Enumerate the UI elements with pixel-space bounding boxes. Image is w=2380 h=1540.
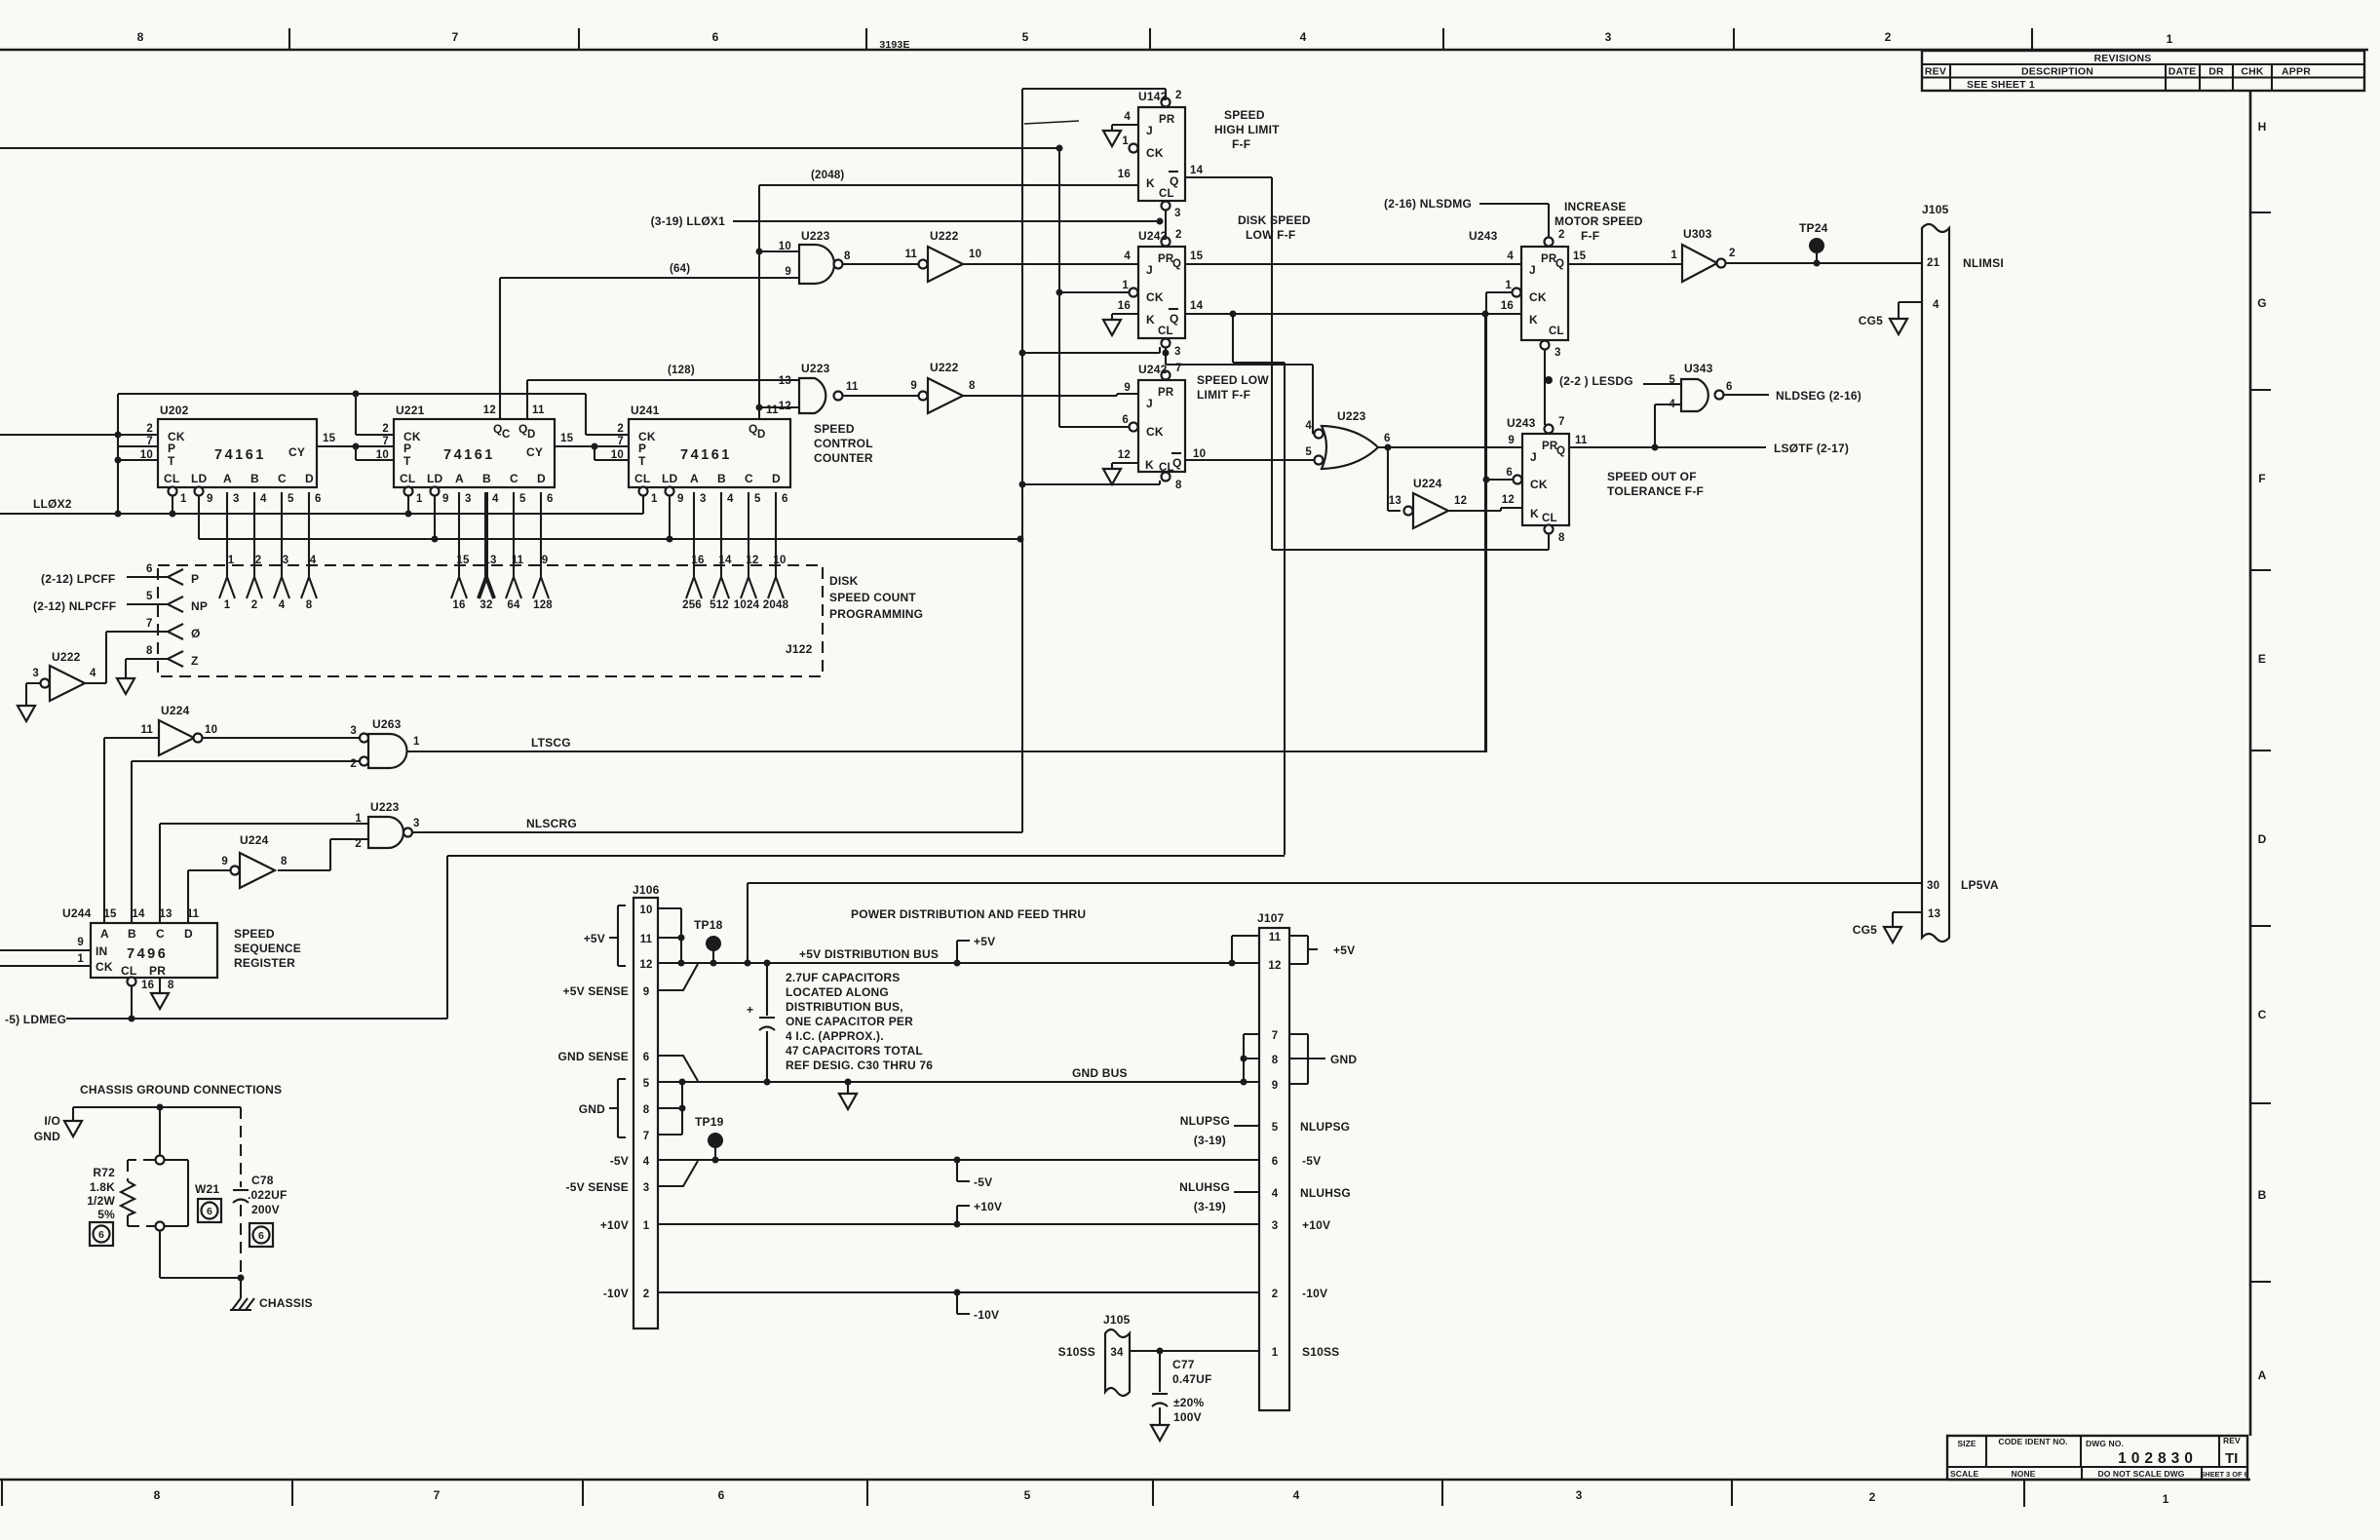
wire +5V distribution bus — [658, 947, 1259, 967]
svg-text:IN: IN — [96, 944, 107, 958]
svg-text:3: 3 — [1576, 1488, 1583, 1502]
svg-text:CODE IDENT NO.: CODE IDENT NO. — [1998, 1437, 2067, 1446]
inverter U222a — [904, 229, 981, 282]
ground CG5 lower — [1853, 923, 1901, 943]
svg-text:T: T — [403, 454, 411, 468]
svg-text:Q: Q — [1172, 456, 1182, 470]
svg-text:2: 2 — [146, 423, 153, 435]
svg-text:J: J — [1530, 450, 1537, 464]
svg-text:U243: U243 — [1507, 416, 1536, 430]
svg-text:POWER DISTRIBUTION AND FEED TH: POWER DISTRIBUTION AND FEED THRU — [851, 907, 1086, 921]
svg-text:W21: W21 — [195, 1182, 219, 1196]
ground I/O GND — [64, 1121, 82, 1136]
svg-text:DISTRIBUTION BUS,: DISTRIBUTION BUS, — [786, 1000, 903, 1014]
svg-text:Q: Q — [1170, 174, 1179, 188]
connector J122 dashed box — [158, 565, 823, 676]
svg-text:8: 8 — [137, 30, 144, 44]
svg-text:64: 64 — [507, 599, 520, 611]
svg-text:2: 2 — [1175, 229, 1182, 241]
svg-text:1: 1 — [1122, 280, 1129, 291]
testpoint TP24 — [1799, 221, 1828, 263]
svg-text:F: F — [2258, 472, 2266, 485]
svg-text:8: 8 — [306, 599, 313, 611]
wire J106 pins 10 11 jog — [658, 908, 685, 967]
label I/O GND — [34, 1114, 60, 1143]
svg-text:D: D — [305, 472, 314, 485]
capacitor C78 — [233, 1107, 288, 1278]
svg-text:2: 2 — [1558, 229, 1565, 241]
svg-text:T: T — [638, 454, 646, 468]
svg-text:INCREASE: INCREASE — [1564, 200, 1627, 213]
wire U202 CK input — [0, 434, 158, 436]
svg-text:7: 7 — [434, 1488, 441, 1502]
svg-text:S10SS: S10SS — [1302, 1345, 1339, 1359]
wire J105 pin13 to CG5 — [1893, 912, 1922, 927]
ground at U222c input — [18, 706, 35, 721]
svg-text:CHASSIS GROUND CONNECTIONS: CHASSIS GROUND CONNECTIONS — [80, 1083, 282, 1097]
note square 6 left — [90, 1222, 113, 1246]
svg-text:5%: 5% — [97, 1208, 115, 1221]
svg-text:6: 6 — [207, 1206, 212, 1217]
svg-text:(128): (128) — [668, 365, 695, 376]
svg-text:+10V: +10V — [1302, 1218, 1330, 1232]
svg-text:D: D — [757, 429, 766, 441]
svg-text:9: 9 — [77, 937, 84, 948]
svg-text:100V: 100V — [1173, 1410, 1202, 1424]
svg-text:ONE CAPACITOR PER: ONE CAPACITOR PER — [786, 1015, 913, 1028]
wire NLPCFF to NP — [33, 591, 168, 613]
svg-text:I/O: I/O — [44, 1114, 60, 1128]
svg-text:U202: U202 — [160, 404, 189, 417]
svg-text:PR: PR — [1158, 387, 1174, 399]
svg-text:16: 16 — [1501, 300, 1514, 312]
wire U221 CY to U241 P/T — [555, 443, 629, 461]
svg-text:LOW F-F: LOW F-F — [1246, 228, 1295, 242]
svg-text:-5) LDMEG: -5) LDMEG — [5, 1013, 66, 1026]
svg-text:D: D — [184, 927, 193, 941]
svg-text:2: 2 — [1175, 90, 1182, 101]
label -10V stub — [957, 1292, 999, 1322]
svg-text:10: 10 — [376, 449, 389, 461]
svg-text:D: D — [527, 429, 536, 441]
title block — [1947, 1436, 2248, 1507]
svg-text:3: 3 — [643, 1182, 650, 1194]
svg-text:6: 6 — [782, 493, 788, 505]
svg-text:15: 15 — [323, 433, 336, 444]
wire U202 D pin — [301, 492, 317, 611]
svg-text:+: + — [747, 1003, 753, 1017]
svg-text:128: 128 — [533, 599, 553, 611]
wire U202 B pin — [247, 492, 262, 611]
wire U202 P T stubs — [118, 446, 158, 460]
svg-text:PROGRAMMING: PROGRAMMING — [829, 607, 923, 621]
wire U223c pin2 from U224b — [278, 839, 368, 870]
svg-text:C: C — [156, 927, 165, 941]
svg-text:C: C — [745, 472, 753, 485]
svg-text:R72: R72 — [93, 1166, 115, 1179]
svg-text:30: 30 — [1927, 880, 1939, 892]
flip-flop U242b — [1118, 363, 1206, 491]
wire J106 pins 8 7 jog — [658, 1082, 686, 1135]
svg-text:9: 9 — [1508, 435, 1515, 446]
svg-text:6: 6 — [1384, 433, 1391, 444]
svg-text:P: P — [403, 442, 411, 455]
note square 6 mid — [198, 1199, 221, 1222]
svg-text:21: 21 — [1927, 257, 1940, 269]
svg-text:4: 4 — [1507, 250, 1514, 262]
svg-text:K: K — [1146, 313, 1155, 327]
svg-text:4: 4 — [260, 493, 267, 505]
svg-text:REV: REV — [1925, 66, 1946, 78]
svg-text:13: 13 — [1389, 495, 1401, 507]
svg-text:B: B — [717, 472, 726, 485]
capacitor 2.7UF — [747, 963, 775, 1082]
svg-text:13: 13 — [159, 908, 172, 920]
wire OR out to U243b J — [1378, 444, 1521, 451]
wire U224c out to U243b K — [1448, 508, 1522, 511]
svg-text:15: 15 — [1190, 250, 1204, 262]
svg-text:J105: J105 — [1922, 203, 1949, 216]
svg-text:-5V SENSE: -5V SENSE — [566, 1180, 630, 1194]
svg-text:6: 6 — [1506, 467, 1513, 479]
svg-text:8: 8 — [281, 856, 288, 867]
svg-text:SPEED COUNT: SPEED COUNT — [829, 591, 916, 604]
svg-text:G: G — [2257, 296, 2267, 310]
svg-text:15: 15 — [560, 433, 574, 444]
bracket GND J106 — [579, 1079, 626, 1137]
svg-text:8: 8 — [1175, 480, 1182, 491]
label increase motor speed — [1555, 200, 1643, 243]
svg-text:DESCRIPTION: DESCRIPTION — [2021, 66, 2093, 78]
svg-text:4: 4 — [727, 493, 734, 505]
svg-text:12: 12 — [483, 404, 496, 416]
svg-text:MOTOR SPEED: MOTOR SPEED — [1555, 214, 1643, 228]
svg-text:7: 7 — [617, 436, 624, 447]
svg-text:C: C — [278, 472, 287, 485]
svg-text:J: J — [1146, 124, 1153, 137]
bracket +5V J106 — [584, 905, 626, 966]
label speed high limit — [1214, 108, 1280, 151]
svg-text:9: 9 — [910, 380, 917, 392]
svg-text:11: 11 — [187, 908, 200, 920]
svg-text:-5V: -5V — [1302, 1154, 1321, 1168]
svg-text:4: 4 — [1124, 111, 1131, 123]
svg-text:12: 12 — [639, 959, 652, 971]
wire U224a out to U263 — [202, 737, 360, 739]
wire NLSDMG to U243a PR — [1384, 197, 1549, 237]
svg-text:11: 11 — [904, 249, 917, 260]
svg-text:LOCATED ALONG: LOCATED ALONG — [786, 985, 889, 999]
svg-text:3: 3 — [413, 818, 420, 829]
wire LTSCG — [406, 314, 1485, 751]
svg-text:1024: 1024 — [734, 599, 760, 611]
svg-text:U222: U222 — [930, 229, 959, 243]
svg-text:15: 15 — [103, 908, 117, 920]
svg-text:DR: DR — [2208, 66, 2224, 78]
svg-text:14: 14 — [132, 908, 145, 920]
svg-text:CONTROL: CONTROL — [814, 437, 873, 450]
svg-text:J122: J122 — [786, 642, 813, 656]
wire center node — [156, 1107, 165, 1231]
svg-text:10: 10 — [779, 241, 791, 252]
svg-text:1: 1 — [2163, 1492, 2169, 1506]
svg-text:4: 4 — [1933, 299, 1939, 311]
ground under Z — [117, 678, 134, 694]
svg-text:DISK SPEED: DISK SPEED — [1238, 213, 1311, 227]
label speed low limit — [1197, 373, 1269, 402]
wire NLSCRG branch to U242b CL — [1022, 481, 1160, 484]
svg-text:U224: U224 — [240, 833, 269, 847]
svg-text:6: 6 — [718, 1488, 725, 1502]
svg-text:6: 6 — [643, 1052, 650, 1063]
svg-text:8: 8 — [154, 1488, 161, 1502]
svg-text:3: 3 — [233, 493, 240, 505]
label -5V stub — [957, 1160, 992, 1189]
svg-text:CL: CL — [121, 964, 136, 978]
svg-text:7: 7 — [146, 436, 153, 447]
svg-text:±20%: ±20% — [1173, 1396, 1205, 1409]
svg-text:74161: 74161 — [443, 447, 495, 463]
svg-text:10: 10 — [611, 449, 624, 461]
or-gate U223d — [1305, 409, 1390, 469]
svg-text:5: 5 — [1669, 374, 1675, 386]
label disk speed low — [1238, 213, 1311, 242]
wire U222b out to U242b J — [963, 394, 1138, 396]
wire U221 D pin — [533, 492, 553, 611]
svg-text:12: 12 — [1118, 449, 1131, 461]
ground CG5 upper — [1859, 314, 1907, 334]
wire U222a out to U242a J — [963, 263, 1138, 265]
wire U223a out — [843, 263, 919, 265]
svg-text:D: D — [772, 472, 781, 485]
wire Z to ground — [126, 645, 168, 678]
capacitor C77 — [1152, 1351, 1212, 1425]
svg-text:J107: J107 — [1257, 911, 1285, 925]
wire U222c input — [26, 683, 40, 706]
svg-text:CK: CK — [1530, 478, 1548, 491]
svg-text:0.47UF: 0.47UF — [1172, 1372, 1212, 1386]
svg-text:16: 16 — [452, 599, 465, 611]
svg-text:12: 12 — [1502, 494, 1515, 506]
svg-text:8: 8 — [969, 380, 976, 392]
svg-text:SPEED: SPEED — [234, 927, 275, 941]
svg-text:GND: GND — [579, 1102, 605, 1116]
svg-text:8: 8 — [1558, 532, 1565, 544]
wire U223c pin1 from U244 C — [160, 824, 368, 923]
svg-text:-10V: -10V — [1302, 1287, 1327, 1300]
svg-text:11: 11 — [532, 404, 545, 416]
svg-text:SPEED OUT OF: SPEED OUT OF — [1607, 470, 1697, 483]
svg-text:11: 11 — [140, 724, 153, 736]
svg-text:5: 5 — [288, 493, 294, 505]
wire U244 CK input — [0, 965, 91, 967]
svg-text:3: 3 — [1272, 1220, 1279, 1232]
svg-text:15: 15 — [1573, 250, 1587, 262]
counter U202 — [140, 404, 336, 505]
svg-text:GND: GND — [34, 1130, 60, 1143]
svg-text:K: K — [1530, 507, 1539, 520]
svg-text:11: 11 — [640, 934, 653, 945]
svg-text:5: 5 — [146, 591, 153, 602]
svg-text:PR: PR — [1159, 114, 1175, 126]
wire U202 A pin — [219, 492, 235, 611]
svg-text:REF DESIG. C30 THRU 76: REF DESIG. C30 THRU 76 — [786, 1059, 933, 1072]
nand U223a — [779, 229, 851, 284]
svg-text:3: 3 — [1555, 347, 1561, 359]
svg-text:3: 3 — [1605, 30, 1612, 44]
svg-text:TI: TI — [2225, 1450, 2238, 1467]
wire U241 B pin — [710, 492, 732, 611]
svg-text:1: 1 — [1272, 1347, 1279, 1359]
wire U242b Qbar to OR gate pin5 — [1185, 459, 1314, 461]
terminal P — [168, 569, 199, 586]
svg-text:(2-12) LPCFF: (2-12) LPCFF — [41, 572, 115, 586]
svg-text:CK: CK — [96, 960, 113, 974]
inverter U224a — [140, 704, 217, 755]
svg-text:LD: LD — [191, 472, 208, 485]
svg-text:16: 16 — [141, 980, 154, 991]
svg-text:A: A — [690, 472, 699, 485]
svg-text:256: 256 — [682, 599, 702, 611]
svg-text:1: 1 — [416, 493, 423, 505]
wire U263 pin2 from U244 B — [132, 761, 360, 923]
svg-text:-5V: -5V — [610, 1154, 629, 1168]
wire U221 C pin — [506, 492, 524, 611]
svg-text:SEE SHEET 1: SEE SHEET 1 — [1967, 79, 2035, 91]
svg-text:A: A — [2258, 1368, 2267, 1382]
svg-text:+5V: +5V — [1333, 943, 1355, 957]
wire U222c out to phi — [85, 618, 168, 683]
inverter U222c — [32, 650, 96, 701]
ground at U242a K — [1103, 320, 1121, 335]
svg-text:11: 11 — [1575, 435, 1588, 446]
svg-text:(2-16) NLSDMG: (2-16) NLSDMG — [1384, 197, 1472, 211]
svg-text:U223: U223 — [370, 800, 400, 814]
svg-text:10: 10 — [1193, 448, 1206, 460]
wire U243a CL to U243b PR — [1545, 349, 1553, 425]
svg-text:2048: 2048 — [763, 599, 789, 611]
wire U142 J input stub — [1112, 125, 1138, 131]
wire U241 A pin — [682, 492, 705, 611]
svg-text:4: 4 — [643, 1156, 650, 1168]
bracket +5V J107 — [1289, 936, 1355, 964]
svg-text:A: A — [100, 927, 109, 941]
svg-text:TP19: TP19 — [695, 1115, 724, 1129]
label disk speed count programming — [829, 574, 923, 621]
wire J107 pins 7 8 jog — [1241, 1034, 1260, 1082]
svg-text:A: A — [455, 472, 464, 485]
counter U221 — [376, 404, 574, 505]
wire LP5VA long line — [748, 883, 1922, 963]
svg-text:4: 4 — [1272, 1188, 1279, 1200]
wire U202 C pin — [274, 492, 289, 611]
svg-text:HIGH LIMIT: HIGH LIMIT — [1214, 123, 1280, 136]
inverter U224c — [1389, 477, 1467, 528]
svg-text:1: 1 — [224, 599, 231, 611]
svg-text:9: 9 — [442, 493, 449, 505]
svg-text:5: 5 — [1024, 1488, 1031, 1502]
flip-flop U243b — [1502, 416, 1588, 544]
svg-text:CY: CY — [288, 445, 305, 459]
wire (128) net — [527, 365, 799, 419]
wire -10V line — [658, 1290, 1259, 1296]
ground at U242b K — [1103, 469, 1121, 484]
label +5V stub — [957, 935, 995, 963]
svg-text:C: C — [510, 472, 518, 485]
svg-text:6: 6 — [1272, 1156, 1279, 1168]
svg-text:13: 13 — [779, 375, 791, 387]
wire LPCFF to P — [41, 563, 168, 586]
svg-text:1: 1 — [180, 493, 187, 505]
svg-text:(2-2 ) LESDG: (2-2 ) LESDG — [1559, 374, 1633, 388]
bracket GND J107 — [1289, 1034, 1357, 1084]
svg-text:CL: CL — [1158, 326, 1173, 337]
svg-text:9: 9 — [221, 856, 228, 867]
svg-text:16: 16 — [1118, 169, 1131, 180]
svg-text:1: 1 — [643, 1220, 650, 1232]
svg-text:CL: CL — [400, 472, 415, 485]
svg-text:APPR: APPR — [2282, 66, 2311, 78]
wire U243b CL to NLSCRG net — [1548, 533, 1550, 550]
and-gate U263 — [350, 717, 420, 770]
svg-text:LD: LD — [427, 472, 443, 485]
register U244 — [62, 906, 217, 991]
svg-text:10: 10 — [969, 249, 981, 260]
wire NLDSEG out — [1724, 389, 1862, 403]
svg-text:NLUHSG: NLUHSG — [1300, 1186, 1351, 1200]
svg-text:Q: Q — [1170, 312, 1179, 326]
svg-text:5: 5 — [519, 493, 526, 505]
svg-text:2: 2 — [643, 1289, 650, 1300]
svg-text:TP24: TP24 — [1799, 221, 1828, 235]
svg-text:S10SS: S10SS — [1058, 1345, 1095, 1359]
svg-text:7: 7 — [146, 618, 153, 630]
svg-text:NLUPSG: NLUPSG — [1300, 1120, 1350, 1134]
svg-text:2.7UF CAPACITORS: 2.7UF CAPACITORS — [786, 971, 900, 984]
svg-text:11: 11 — [766, 404, 779, 416]
svg-text:NLSCRG: NLSCRG — [526, 817, 577, 830]
wire U224b in from U244 D — [188, 870, 230, 923]
svg-text:7: 7 — [382, 436, 389, 447]
svg-text:7: 7 — [643, 1131, 650, 1142]
wire J105 pin4 to CG5 — [1899, 302, 1922, 319]
svg-text:U224: U224 — [161, 704, 190, 717]
svg-text:F-F: F-F — [1581, 229, 1599, 243]
svg-text:COUNTER: COUNTER — [814, 451, 873, 465]
svg-text:14: 14 — [1190, 300, 1204, 312]
note square 6 right — [250, 1223, 273, 1247]
svg-text:J106: J106 — [633, 883, 660, 897]
svg-text:2: 2 — [382, 423, 389, 435]
svg-text:DWG NO.: DWG NO. — [2086, 1439, 2124, 1448]
ground at U142 J — [1103, 131, 1121, 146]
svg-text:3: 3 — [1174, 346, 1181, 358]
svg-text:LD: LD — [662, 472, 678, 485]
nand U223c — [355, 800, 419, 850]
svg-text:200V: 200V — [251, 1203, 280, 1216]
svg-text:(3-19) LLØX1: (3-19) LLØX1 — [651, 214, 726, 228]
svg-text:4: 4 — [1300, 30, 1307, 44]
svg-text:B: B — [482, 472, 491, 485]
svg-text:Q: Q — [1556, 445, 1565, 457]
svg-text:(2048): (2048) — [811, 170, 844, 181]
wire LSOTF out — [1569, 442, 1849, 455]
wire U244 IN input — [0, 949, 91, 951]
svg-text:2: 2 — [1869, 1490, 1876, 1504]
svg-text:REV: REV — [2223, 1436, 2241, 1445]
note capacitors text — [786, 971, 933, 1072]
wire J107 pin11 jog — [1232, 936, 1259, 963]
